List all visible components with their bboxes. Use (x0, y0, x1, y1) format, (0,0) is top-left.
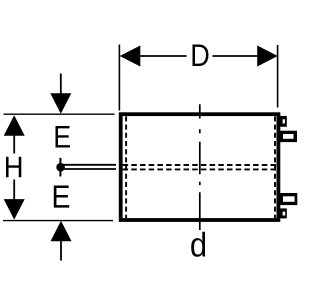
dimension E top arrow tail (60, 74, 62, 95)
lower interior dashed line (123, 168, 277, 170)
dimension D arrowhead right (257, 46, 278, 67)
terminal tab small bottom-right (277, 208, 287, 218)
weld indicator vertical line (59, 158, 61, 177)
dimension H arrowhead down (4, 199, 25, 220)
dimension E bottom arrowhead (up) (51, 221, 72, 242)
dimension D line left segment (140, 55, 187, 57)
dimension H line lower segment (13, 180, 15, 200)
dimension E bottom arrow tail (60, 241, 62, 261)
dimension H top extension line (4, 113, 115, 115)
dimension D extension tick left (118, 45, 120, 111)
label D (192, 45, 208, 66)
label H (6, 157, 21, 178)
dimension D line right segment (213, 55, 259, 57)
right inner dashed line (274, 116, 276, 218)
weld indicator double line upper (64, 164, 117, 166)
weld indicator dot (56, 163, 65, 172)
coupling body outline (121, 114, 279, 220)
weld indicator double line lower (64, 168, 117, 170)
dimension H bottom extension line (3, 220, 113, 222)
dimension H line upper segment (13, 135, 15, 154)
left inner dashed line (125, 116, 127, 218)
label d (191, 232, 205, 257)
label E lower (54, 185, 69, 207)
vertical centerline (dash-dot) (199, 104, 201, 230)
terminal tab wide upper-right (277, 131, 297, 142)
terminal tab wide lower-right (277, 193, 297, 205)
dimension E top arrowhead (down) (50, 93, 71, 114)
dimension D extension tick right (277, 45, 279, 108)
terminal tab small top-right (277, 116, 287, 127)
dimension D arrowhead left (120, 46, 141, 67)
label E upper (55, 126, 69, 147)
upper interior dashed line (123, 164, 277, 166)
dimension H arrowhead up (4, 115, 25, 136)
